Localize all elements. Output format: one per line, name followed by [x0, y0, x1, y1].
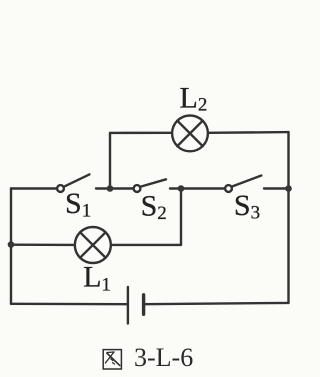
switch S3 — [225, 176, 261, 192]
wire: node C to S3 — [181, 187, 225, 189]
wire: right vertical (top corner to bottom corner) — [287, 132, 289, 303]
wire: left vertical (S1 row down to battery row) — [10, 189, 12, 304]
battery short plate (-) — [142, 295, 145, 315]
wire: left lead into S1 — [11, 187, 56, 189]
wire: battery to bottom right — [144, 303, 289, 304]
wire: top branch horizontal, left of L2 — [110, 132, 172, 134]
switch S2 — [134, 179, 166, 192]
node B junction dot — [107, 185, 114, 192]
wire: node B to S2 — [110, 187, 133, 189]
node C junction dot — [178, 185, 185, 192]
wire: L1 branch right of lamp — [112, 244, 181, 246]
battery long plate (+) — [127, 287, 129, 324]
caption character 图 — [103, 350, 121, 369]
svg-text:3-L-6: 3-L-6 — [134, 343, 193, 372]
wire: bottom left to battery — [11, 303, 128, 306]
wire: S2 fixed-contact stub — [170, 187, 181, 189]
node A junction dot (left vertical) — [8, 241, 15, 248]
lamp L1 — [75, 227, 111, 263]
switch S1 — [57, 174, 89, 192]
node D junction dot (right vertical) — [285, 185, 292, 192]
lamp L2 — [172, 115, 208, 151]
wire: S3 fixed-contact stub — [264, 187, 289, 189]
wire: top branch horizontal, right of L2 — [209, 131, 289, 134]
wire: S1 fixed-contact stub — [96, 187, 110, 189]
wire: top branch left vertical (node B to top) — [109, 133, 111, 189]
wire: L1 branch vertical up to node C — [180, 189, 182, 245]
wire: L1 branch left of lamp — [11, 243, 74, 246]
